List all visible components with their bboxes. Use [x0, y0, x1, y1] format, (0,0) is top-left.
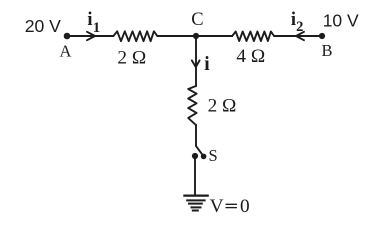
svg-text:S: S: [209, 146, 218, 165]
svg-text:2 Ω: 2 Ω: [208, 95, 237, 116]
wire R2 to B: [274, 35, 322, 37]
current arrow i (down): [192, 60, 200, 67]
switch contact dot right: [201, 154, 207, 160]
svg-text:C: C: [191, 10, 203, 30]
svg-text:i: i: [87, 10, 92, 30]
wire switch to ground: [194, 156, 196, 195]
svg-text:V: V: [210, 196, 224, 217]
resistor R1 2Ω zigzag: [113, 31, 157, 41]
svg-text:A: A: [60, 41, 72, 60]
svg-text:2 Ω: 2 Ω: [117, 48, 146, 69]
resistor R3 2Ω vertical zigzag: [188, 86, 196, 125]
wire R3 to switch: [195, 125, 197, 146]
ground symbol: [183, 196, 209, 211]
wire A to R1: [67, 35, 113, 37]
wire C down to R3: [195, 36, 197, 86]
svg-text:i: i: [204, 54, 210, 75]
svg-text:B: B: [322, 41, 333, 60]
svg-text:1: 1: [93, 20, 101, 36]
node A dot: [64, 33, 71, 40]
wire C to R2: [196, 35, 232, 37]
current arrow i1: [87, 32, 95, 40]
svg-text:20 V: 20 V: [25, 16, 61, 36]
resistor R2 4Ω zigzag: [232, 32, 274, 42]
wire R1 to C: [157, 35, 196, 37]
svg-text:4 Ω: 4 Ω: [236, 46, 265, 67]
switch contact dot left: [192, 153, 198, 159]
node B dot: [319, 33, 325, 39]
svg-text:2: 2: [296, 19, 303, 35]
node C dot: [193, 33, 199, 39]
svg-text:0: 0: [240, 196, 250, 217]
current arrow i2: [296, 32, 304, 40]
svg-text:10 V: 10 V: [323, 11, 359, 31]
switch S blade: [196, 146, 202, 155]
